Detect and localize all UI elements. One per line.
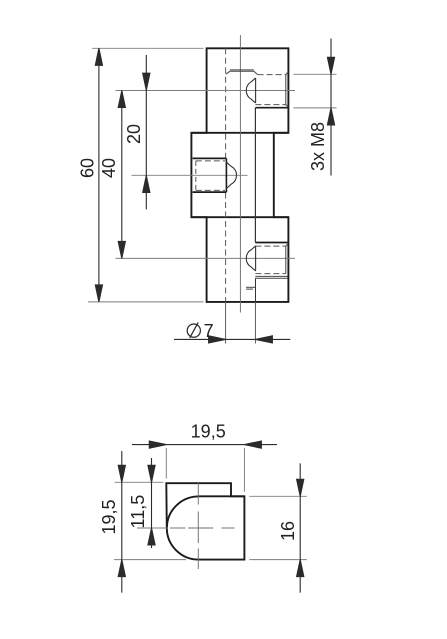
dimension 19,5 top (outside arrows) bbox=[132, 441, 277, 448]
visible cylinder silhouette arc upper-left bbox=[167, 496, 199, 528]
extension lines left side view bbox=[115, 481, 164, 483]
dimension 20 (outside arrows) bbox=[143, 55, 150, 209]
part outline side view bbox=[166, 483, 244, 559]
svg-text:7: 7 bbox=[204, 321, 214, 341]
hidden line left edge of vertical bore bbox=[225, 48, 227, 158]
dimension 16 (outside arrows) bbox=[297, 463, 304, 592]
dimension 40 bbox=[118, 91, 125, 259]
centerline horizontal side view bbox=[137, 527, 235, 529]
extension lines 3x M8 bbox=[293, 73, 336, 75]
axis line bottom hole bbox=[116, 257, 296, 259]
label diameter 7 bbox=[187, 322, 200, 338]
svg-text:60: 60 bbox=[77, 158, 97, 178]
svg-text:19,5: 19,5 bbox=[99, 499, 119, 534]
svg-text:11,5: 11,5 bbox=[128, 495, 148, 529]
svg-text:20: 20 bbox=[124, 124, 144, 144]
extension line top edge (60) bbox=[92, 47, 204, 49]
threaded hole M8 top (drilled from right face) bbox=[226, 70, 289, 108]
threaded hole M8 middle (drilled from left face) bbox=[193, 158, 237, 192]
extension lines 19,5 top bbox=[165, 448, 167, 479]
cylinder top tangent line bbox=[198, 495, 245, 497]
dimension 3x M8 (outside arrows) bbox=[327, 39, 334, 176]
svg-text:19,5: 19,5 bbox=[191, 421, 226, 441]
threaded hole M8 bottom (drilled from right face) bbox=[246, 243, 288, 290]
axis line middle hole bbox=[132, 174, 248, 176]
axis line top hole bbox=[116, 90, 296, 92]
extension line bottom edge (60) bbox=[88, 301, 204, 303]
svg-text:40: 40 bbox=[99, 158, 119, 178]
centerline vertical axis bbox=[239, 35, 241, 313]
centerline vertical side view bbox=[197, 483, 199, 569]
extension lines diameter 7 bbox=[225, 302, 227, 344]
dimension 19,5 left (outside arrows) bbox=[118, 451, 125, 593]
part outline front view bbox=[191, 48, 288, 302]
svg-text:16: 16 bbox=[278, 521, 298, 541]
dimension diameter 7 (outside arrows) bbox=[174, 336, 290, 343]
dimension 60 bbox=[95, 48, 102, 302]
svg-text:3x M8: 3x M8 bbox=[308, 122, 328, 171]
dimension 11,5 (outside arrows) bbox=[148, 458, 155, 548]
extension lines 16 right bbox=[249, 495, 306, 497]
right edge of vertical bore bbox=[254, 108, 256, 243]
